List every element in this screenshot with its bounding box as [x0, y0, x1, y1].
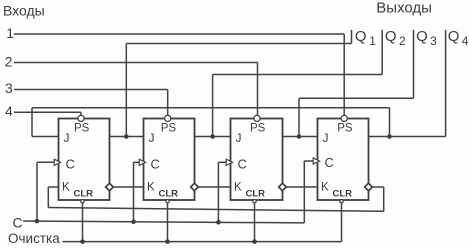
svg-text:2: 2	[5, 53, 13, 69]
svg-text:J: J	[64, 131, 70, 145]
svg-text:2: 2	[399, 34, 406, 48]
svg-text:C: C	[151, 156, 160, 171]
svg-text:Q: Q	[355, 28, 367, 45]
svg-text:Выходы: Выходы	[376, 0, 432, 17]
svg-text:CLR: CLR	[159, 189, 179, 200]
svg-text:K: K	[62, 182, 70, 194]
svg-text:J: J	[323, 131, 329, 145]
svg-text:С: С	[13, 215, 23, 231]
svg-text:3: 3	[430, 34, 437, 48]
svg-text:K: K	[321, 182, 329, 194]
svg-text:Q: Q	[385, 28, 397, 45]
svg-text:4: 4	[5, 103, 13, 119]
svg-text:PS: PS	[250, 123, 266, 135]
svg-text:Q: Q	[416, 28, 428, 45]
svg-text:PS: PS	[337, 123, 353, 135]
svg-text:3: 3	[5, 80, 13, 96]
svg-text:Входы: Входы	[3, 3, 45, 19]
svg-text:J: J	[149, 131, 155, 145]
svg-text:C: C	[325, 155, 334, 170]
svg-text:CLR: CLR	[333, 189, 353, 200]
svg-text:1: 1	[6, 25, 14, 41]
svg-text:Q: Q	[448, 28, 460, 45]
svg-text:Очистка: Очистка	[8, 231, 60, 246]
svg-text:1: 1	[369, 34, 376, 48]
svg-text:CLR: CLR	[246, 189, 266, 200]
svg-text:CLR: CLR	[74, 189, 94, 200]
svg-text:C: C	[238, 156, 247, 171]
svg-text:J: J	[236, 131, 242, 145]
svg-text:C: C	[66, 156, 75, 171]
svg-text:PS: PS	[74, 123, 90, 135]
svg-text:PS: PS	[161, 123, 177, 135]
svg-text:K: K	[147, 182, 155, 194]
svg-text:4: 4	[462, 34, 469, 48]
svg-text:K: K	[234, 182, 242, 194]
